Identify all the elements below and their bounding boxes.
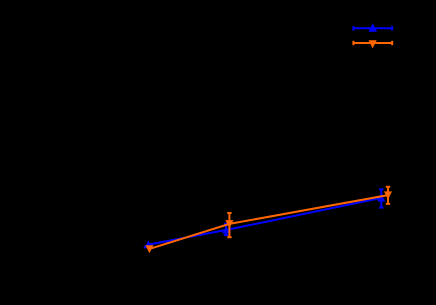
orange triangle-down markers xyxy=(146,192,391,252)
orange error bar point 3 xyxy=(386,187,390,204)
orange series data line xyxy=(149,195,388,249)
legend orange entry handle xyxy=(353,41,392,45)
blue triangle-up markers xyxy=(145,195,384,248)
blue error bar point 3 xyxy=(379,189,383,207)
orange error bar point 2 xyxy=(227,213,231,237)
legend orange triangle-down marker xyxy=(369,41,376,48)
blue series data line xyxy=(144,198,381,248)
blue error bar point 2 xyxy=(224,224,228,235)
legend blue entry handle xyxy=(353,26,392,30)
legend blue triangle-up marker xyxy=(369,24,376,31)
